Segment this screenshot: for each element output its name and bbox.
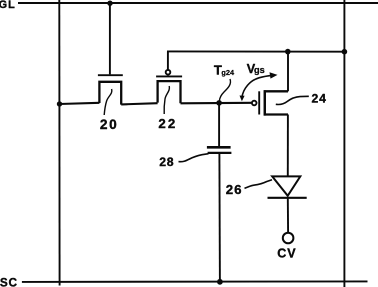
capacitor 28 top plate bbox=[207, 146, 231, 149]
wire from gate of 22 to right vertical bbox=[167, 50, 344, 52]
wire drain 20 to source 22 bbox=[121, 103, 157, 104]
transistor 24 gate bar (vertical) bbox=[258, 91, 260, 114]
junction capacitor / SC bbox=[217, 279, 223, 285]
wire diode cathode down to CV terminal bbox=[287, 198, 289, 233]
svg-text:GL: GL bbox=[0, 0, 16, 11]
svg-text:24: 24 bbox=[312, 92, 327, 106]
wire node Tg24 (drain 22 to gate of 24) bbox=[181, 102, 253, 105]
svg-text:g24: g24 bbox=[221, 68, 235, 77]
leader line of label 24 bbox=[276, 96, 309, 104]
svg-text:20: 20 bbox=[100, 117, 118, 132]
wire source of 20 bbox=[60, 103, 100, 104]
Vgs arrowhead upper bbox=[270, 72, 278, 78]
transistor 20 gate bar bbox=[98, 74, 123, 76]
svg-text:gs: gs bbox=[254, 65, 265, 75]
Vgs curved measurement arrow bbox=[242, 75, 273, 97]
diode 26 anode triangle bbox=[272, 176, 300, 195]
junction node Tg24 / capacitor bbox=[216, 100, 222, 106]
wire right vertical bus bbox=[343, 0, 345, 287]
capacitor 28 bottom plate bbox=[208, 152, 232, 154]
leader line of label Tg24 bbox=[219, 79, 230, 101]
junction at drain lead of 24 bbox=[285, 49, 291, 55]
wire capacitor bottom to SC bbox=[218, 154, 221, 282]
wire node Tg24 down to capacitor bbox=[218, 103, 220, 146]
Vgs arrowhead lower bbox=[240, 96, 245, 102]
svg-text:22: 22 bbox=[158, 116, 177, 131]
transistor 20 channel bbox=[99, 82, 121, 105]
terminal CV circle bbox=[283, 233, 294, 244]
transistor 24 gate circle bbox=[252, 101, 257, 106]
leader line of label 26 bbox=[245, 180, 273, 189]
transistor 22 gate circle (p-type bubble) bbox=[166, 70, 171, 75]
wire gate lead of transistor 20 bbox=[109, 3, 111, 74]
svg-text:SC: SC bbox=[0, 275, 18, 287]
leader line of label 20 bbox=[104, 89, 112, 115]
junction data line / source wire of 20 bbox=[57, 101, 62, 106]
wire drain of 24 up to net bbox=[287, 52, 289, 92]
junction at right vertical bbox=[342, 49, 348, 55]
svg-text:28: 28 bbox=[159, 155, 174, 169]
wire source of 24 down to diode bbox=[287, 115, 289, 177]
wire data line (left vertical bus) bbox=[58, 0, 60, 286]
transistor 22 gate bar bbox=[156, 75, 182, 77]
svg-text:26: 26 bbox=[226, 182, 243, 197]
transistor 24 channel (vertical) bbox=[265, 91, 288, 114]
wire gate lead of 22 going up bbox=[167, 51, 169, 69]
svg-text:CV: CV bbox=[277, 247, 296, 261]
wire SC (bottom horizontal) bbox=[22, 280, 368, 283]
wire GL (gate line, top horizontal) bbox=[18, 2, 378, 4]
leader line of label 22 bbox=[164, 86, 169, 114]
leader line of label 28 bbox=[179, 154, 209, 162]
diode 26 cathode bar bbox=[268, 197, 307, 199]
transistor 22 channel bbox=[158, 81, 181, 103]
junction on GL at gate lead of 20 bbox=[107, 1, 112, 6]
